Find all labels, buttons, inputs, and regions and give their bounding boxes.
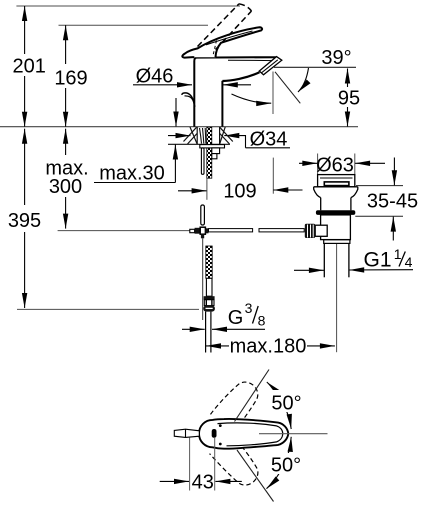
pull rod tee: left dark block — [195, 228, 201, 234]
top-view cartridge pill — [212, 429, 217, 438]
svg-text:max.180: max.180 — [230, 336, 307, 358]
dimension 201 vertical line — [24, 6, 26, 127]
dimension Ø46 leader left — [133, 84, 192, 86]
drain gasket (black) — [316, 210, 355, 215]
dimension Ø63 arrows — [299, 162, 317, 164]
wire: 39deg flow axis line — [275, 72, 300, 104]
svg-text:50°: 50° — [271, 393, 301, 415]
top-view dots — [219, 424, 222, 427]
mounting nut step 2 — [212, 154, 217, 159]
handle raised position (dashed) — [198, 4, 252, 50]
pull-rod knob hook — [182, 93, 195, 107]
svg-text:95: 95 — [338, 88, 360, 110]
dimension 35-45 reference lines — [356, 185, 403, 187]
pull rod tee: left screw — [190, 229, 195, 232]
drain flange lip — [314, 186, 358, 188]
deck clamp marks right — [220, 127, 233, 144]
dimension 395 vertical line — [24, 129, 26, 308]
svg-text:G: G — [228, 307, 244, 329]
dimension 43 extension lines — [189, 438, 191, 491]
deck cross-section trapezoid — [190, 127, 225, 144]
svg-text:39°: 39° — [321, 47, 351, 69]
svg-text:Ø34: Ø34 — [250, 128, 288, 150]
svg-text:Ø63: Ø63 — [316, 155, 354, 177]
threaded stud (checker) — [207, 127, 212, 178]
top-view dashed paddle rotated up 50deg (drawn first, under solid) — [210, 376, 265, 433]
svg-text:43: 43 — [192, 471, 214, 493]
drain flange box — [318, 175, 355, 187]
hose fitting hex — [204, 300, 214, 306]
pull rod upper segment — [201, 148, 204, 174]
braided hose — [206, 246, 212, 278]
svg-text:300: 300 — [49, 176, 82, 198]
top-view paddle outline — [199, 419, 288, 449]
handle inner line — [206, 31, 253, 45]
drain: Ø63 extension lines — [317, 154, 319, 176]
svg-text:max.30: max.30 — [99, 163, 165, 185]
dimension max.180 — [206, 345, 229, 347]
dimension 50deg arc lower — [267, 437, 292, 489]
dimension Ø34 leader — [224, 136, 245, 148]
supply pipe G3/8 — [205, 312, 207, 353]
dimension 95 vertical line — [347, 69, 349, 127]
svg-text:169: 169 — [54, 68, 87, 90]
drain rod connector box — [315, 225, 327, 236]
horizontal pop-up rod segment 1 — [209, 229, 253, 232]
dimension 35-45 arrows — [393, 158, 395, 186]
hose fitting o-ring — [203, 306, 215, 312]
svg-text:4: 4 — [405, 254, 413, 270]
svg-text:50°: 50° — [271, 455, 301, 477]
label 50deg upper — [267, 390, 306, 412]
svg-text:8: 8 — [258, 313, 266, 329]
pull rod tee: right nub — [205, 228, 208, 233]
top-view centerline — [259, 433, 328, 435]
drain body — [321, 215, 351, 240]
hose fitting collar — [204, 296, 215, 300]
drain centerline — [336, 244, 338, 352]
dimension G1 1/4 arrows — [294, 269, 324, 271]
top-view angle line lower — [237, 450, 274, 502]
drain neck — [320, 198, 322, 211]
wire: deck bottom line — [168, 143, 230, 145]
top-view angle line upper — [235, 370, 270, 422]
dimension G3/8 arrows — [182, 328, 205, 330]
dimension max30 upper arrow at deck — [175, 98, 177, 127]
drain plug slab — [324, 182, 349, 186]
hose break line — [206, 178, 208, 200]
dimension Ø46 arrow right — [223, 84, 251, 86]
deck clamp marks left — [184, 127, 198, 144]
svg-text:35-45: 35-45 — [367, 190, 418, 212]
wire: 395 reference line (hose end level) — [17, 308, 199, 310]
faucet spout top edge — [197, 56, 277, 58]
node: spout outlet axis extension (upper) — [272, 72, 274, 115]
wire: top reference line (raised handle height) — [16, 5, 240, 7]
shank thread curves — [200, 128, 206, 144]
faucet outlet face — [259, 57, 282, 75]
drain side knurled knob — [305, 224, 315, 238]
pull rod tee: bottom nub — [201, 234, 204, 238]
drain tailpipe — [323, 243, 325, 277]
wire: deck top line — [0, 126, 358, 128]
svg-text:1: 1 — [394, 246, 402, 262]
mounting washer — [200, 145, 225, 148]
faucet body left edge — [194, 58, 196, 127]
svg-text:G1: G1 — [363, 248, 391, 271]
faucet spout underside swoosh — [222, 72, 259, 81]
handle cartridge dashed line — [213, 41, 217, 56]
svg-text:201: 201 — [13, 56, 46, 78]
drain collar — [324, 240, 350, 244]
label 50deg lower — [264, 453, 306, 474]
horizontal pop-up rod segment 2 — [259, 229, 304, 232]
pull rod middle segment — [201, 205, 205, 225]
top-view paddle inner line — [218, 423, 283, 446]
dimension flow arc arrow to outlet axis — [232, 94, 272, 103]
mounting nut step 1 — [212, 148, 220, 154]
dimension 169 vertical line — [65, 25, 67, 127]
wire: 39deg underline / 95 reference — [274, 66, 356, 68]
top-view pull knob tab — [174, 429, 199, 437]
svg-text:Ø46: Ø46 — [136, 66, 174, 88]
top-view dashed paddle rotated down 50deg (drawn first, under solid) — [210, 435, 265, 492]
wire: reference line top of closed handle — [59, 24, 209, 26]
svg-text:3: 3 — [245, 300, 253, 316]
svg-text:109: 109 — [223, 181, 256, 203]
svg-text:395: 395 — [8, 210, 41, 232]
wire: max300 reference line — [58, 230, 197, 232]
handle lever outline — [182, 27, 262, 57]
dimension 43 arrows — [160, 480, 189, 482]
faucet body right edge — [221, 81, 223, 127]
dimension 50deg arc upper — [267, 382, 291, 429]
dimension 39deg arc arrow — [298, 68, 309, 92]
dimension max30 lower arrow and underline — [174, 145, 176, 183]
pull rod tee: center box — [200, 227, 205, 234]
dimension 109 — [178, 190, 207, 192]
dimension max300 vertical line — [65, 129, 67, 229]
hose lower tube — [206, 278, 212, 296]
pull rod lower thin line — [202, 238, 204, 320]
node: spout outlet axis extension (lower) — [272, 158, 274, 194]
